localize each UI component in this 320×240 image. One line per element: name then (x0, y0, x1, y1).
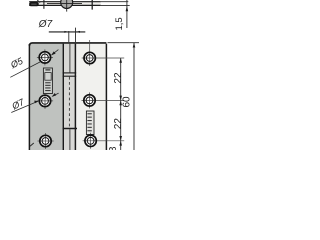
front view right leaf left edge (barrel right) (74, 44, 76, 150)
extension line top for 1,5 dimension (101, 1, 129, 3)
Ø7 top arrow left (64, 31, 68, 33)
top view circle horizontal center line (47, 2, 82, 4)
svg-text:8: 8 (108, 146, 119, 150)
Ø7 top arrow right (76, 31, 80, 33)
front view top edge (29, 43, 106, 46)
hole L2 middle-left (37, 93, 53, 109)
top view stray diagonal mark (37, 0, 40, 3)
barrel junction line upper a (63, 72, 77, 74)
arrow pair at hole R3 (119, 136, 122, 141)
svg-text:60: 60 (122, 96, 133, 108)
dimension leader line Ø7 top (49, 31, 86, 33)
front view left leaf left edge (28, 44, 30, 150)
svg-text:22: 22 (113, 72, 124, 84)
Ø7 top extension stub left (68, 31, 70, 42)
top view bar top edge (29, 1, 101, 3)
top view hole center tick left (43, 0, 45, 9)
dimension line 60 vertical (133, 43, 135, 150)
front view left leaf (gray) (29, 43, 64, 150)
left leaf stamp cartouche (43, 68, 52, 94)
Ø7 top extension stub right (75, 28, 77, 42)
front view left leaf right edge (barrel left) (62, 44, 64, 150)
extension line bottom for 1,5 dimension (101, 4, 130, 6)
top view hole center tick right (91, 0, 93, 10)
dimension line 1,5 vertical (126, 0, 128, 28)
top view circle vertical center line (66, 0, 68, 12)
hole L1 top-left (37, 49, 53, 65)
right leaf stamp cartouche (86, 111, 94, 135)
arrow pair at hole R2 (119, 96, 122, 101)
top view bar interior (29, 2, 101, 5)
barrel pin dashed line middle (68, 77, 70, 128)
leader line Ø5 (10, 62, 40, 77)
svg-text:Ø7: Ø7 (38, 19, 53, 30)
leader arrow Ø7 near side (34, 101, 39, 104)
svg-text:22: 22 (113, 118, 124, 130)
top view left end solid blob (29, 2, 39, 6)
dimension line 22 chain vertical (120, 58, 122, 150)
front view right leaf right edge (105, 44, 107, 150)
leader arrow Ø7 far side (52, 93, 58, 96)
extension line top edge right (108, 42, 140, 44)
dimension arrow 1,5 (126, 6, 129, 11)
barrel junction line lower (63, 128, 77, 130)
svg-text:1,5: 1,5 (114, 17, 125, 30)
barrel knuckle line lower (69, 129, 71, 150)
barrel knuckle line upper (69, 44, 71, 73)
hole R1 top-right with extension line (82, 40, 125, 66)
front view barrel zone (64, 43, 76, 150)
top view bar bottom edge (29, 4, 101, 6)
hole R3 bottom-right with extension line (83, 133, 125, 149)
hole L3 bottom-left (38, 133, 54, 149)
top view knuckle circle (61, 0, 73, 8)
hole R2 middle-right with extension line (82, 92, 125, 108)
arrow chain top at hole R1 (119, 58, 122, 63)
front view right leaf (white) (75, 43, 106, 150)
leader line Ø7 left (11, 101, 37, 112)
barrel junction line upper b (63, 75, 77, 77)
bottom-left stray arrow mark (30, 143, 34, 146)
leader arrow Ø5 far side (52, 50, 59, 55)
arrow 60 top (133, 43, 136, 48)
